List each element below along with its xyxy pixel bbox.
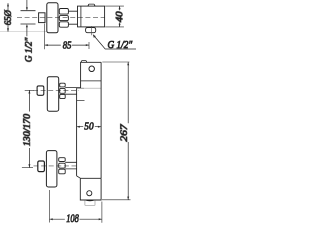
dimension 267 bottom extension xyxy=(102,199,131,201)
arrowhead right 85 xyxy=(86,44,89,46)
dimension 85 left extension xyxy=(44,24,46,50)
body inner left edge xyxy=(80,6,82,27)
dimension 40 bottom extension xyxy=(105,26,124,28)
wall line faint xyxy=(0,30,47,32)
arrowhead up 65 xyxy=(7,3,9,6)
bottom outlet circle xyxy=(87,191,92,196)
arrowhead up 130/170 xyxy=(28,90,30,93)
svg-text:108: 108 xyxy=(66,211,79,225)
lower wall block xyxy=(38,161,45,172)
leader line G 1/2 right xyxy=(93,35,136,49)
upper rosette xyxy=(47,77,58,112)
dimension 108 right extension xyxy=(101,202,103,223)
dimension 130/170 bottom tick xyxy=(22,167,33,169)
arrowhead right 108 xyxy=(99,218,102,220)
svg-text:85: 85 xyxy=(63,39,72,51)
arrowhead up 40 xyxy=(119,6,121,9)
stub nut to body (top view) xyxy=(69,11,78,24)
dimension 40 line xyxy=(119,6,121,27)
arrowhead up xyxy=(26,24,28,27)
body shoulder line xyxy=(77,100,85,102)
outlet centerline tick xyxy=(90,26,92,35)
svg-text:50: 50 xyxy=(84,120,94,132)
lower union nut (three facets) xyxy=(59,158,65,162)
rosette (top view, tall rounded rect) xyxy=(47,3,58,33)
body top edge faint xyxy=(77,87,84,89)
leader arrowhead xyxy=(93,35,96,38)
dimension 130/170 line xyxy=(28,90,30,167)
svg-text:40: 40 xyxy=(114,11,125,22)
dimension 85 line xyxy=(45,44,89,46)
bottom bulge xyxy=(85,199,95,202)
dimension 267 line xyxy=(127,62,129,200)
dimension 85 right extension xyxy=(88,42,90,49)
dimension 108 line xyxy=(50,218,102,220)
chamfer to bottom block xyxy=(77,176,81,178)
top bump xyxy=(81,61,87,63)
svg-text:130/170: 130/170 xyxy=(22,113,32,146)
bottom block xyxy=(80,178,101,200)
upper stub to body xyxy=(65,88,80,95)
union block (top view) xyxy=(39,13,45,23)
dimension 50 line xyxy=(77,126,102,128)
arrowhead left 85 xyxy=(45,44,48,46)
hose stub below xyxy=(85,200,95,205)
union nut (top view, three facets) xyxy=(59,9,68,15)
wall pipe G 1/2 (top view, two profile lines) xyxy=(21,11,36,24)
arrowhead right 50 xyxy=(98,126,101,128)
lower rosette xyxy=(46,151,57,187)
wire centerline upper inlet xyxy=(33,90,79,92)
arrowhead left 108 xyxy=(50,218,53,220)
svg-text:267: 267 xyxy=(119,123,130,141)
lower stub to body xyxy=(65,162,76,169)
arrowhead down 40 xyxy=(119,24,121,27)
arrowhead down xyxy=(26,7,28,10)
dimension 40 top extension xyxy=(105,5,124,7)
dimension G 1/2 left vertical line xyxy=(26,0,28,36)
head separation line xyxy=(81,80,102,82)
upper wall block xyxy=(37,86,44,95)
upper union nut (three facets) xyxy=(60,83,65,87)
dimension 130/170 top tick xyxy=(25,89,34,91)
svg-text:G 1/2″: G 1/2″ xyxy=(108,40,133,51)
dimension 108 left extension xyxy=(49,190,51,223)
svg-text:G 1/2″: G 1/2″ xyxy=(24,37,34,62)
body column (front view) xyxy=(76,88,78,176)
knob on top xyxy=(88,4,96,6)
arrowhead up 267 xyxy=(127,62,129,65)
bottom outlet nut (top view) xyxy=(86,28,96,33)
svg-text:65Ø: 65Ø xyxy=(3,10,13,25)
dimension 65 diameter line xyxy=(7,3,9,31)
arrowhead left 50 xyxy=(77,126,80,128)
arrowhead down 267 xyxy=(127,197,129,200)
dimension 267 top extension xyxy=(102,61,129,63)
head screw circle xyxy=(89,66,95,72)
wire centerline top view xyxy=(17,16,105,18)
arrowhead down 65 xyxy=(7,28,9,31)
arrowhead down 130/170 xyxy=(28,164,30,167)
mixer body (top view) xyxy=(78,6,105,27)
wire centerline lower inlet xyxy=(34,165,80,167)
head block (front view) xyxy=(81,62,102,88)
